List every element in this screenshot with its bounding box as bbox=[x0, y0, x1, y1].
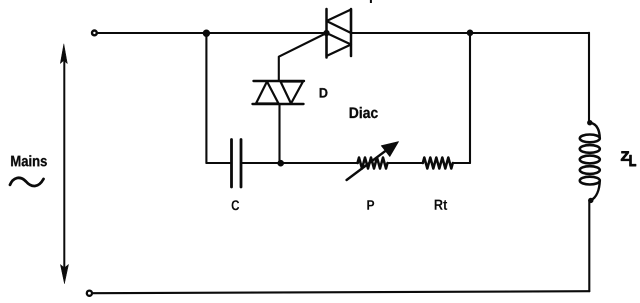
triac U1 right bar MT2 bbox=[350, 9, 353, 56]
diac left triangle (apex up) bbox=[256, 82, 279, 104]
mains arrow head up bbox=[60, 44, 67, 64]
potentiometer arrowhead bbox=[381, 142, 398, 157]
stray mark (cropped label) top bbox=[370, 0, 372, 3]
node coil top bbox=[587, 120, 592, 125]
wire diac bottom lead to J2 bbox=[278, 105, 280, 164]
wire bottom rail bbox=[93, 291, 590, 293]
diac right triangle (apex down) bbox=[281, 82, 304, 104]
triac lower triangle bbox=[327, 33, 352, 56]
mains double arrow shaft bbox=[63, 58, 65, 269]
potentiometer arrow shaft bbox=[347, 148, 390, 181]
wire branch vertical down from J1 bbox=[205, 33, 207, 163]
wire triac MT2 to top-right corner bbox=[351, 32, 589, 34]
node junction J3 (top right) bbox=[467, 30, 473, 36]
label C bbox=[232, 200, 240, 210]
wire top-left to triac MT1 bbox=[98, 32, 327, 34]
wire top-right corner down to load bbox=[588, 33, 590, 123]
AC sine symbol bbox=[10, 178, 44, 186]
wire capacitor to node J2 bbox=[243, 162, 281, 164]
label Diac bbox=[350, 107, 378, 118]
label ZL bbox=[621, 152, 636, 167]
node coil bottom bbox=[588, 198, 593, 203]
node triac gate junction bbox=[324, 30, 330, 36]
triac U1 left bar MT1 bbox=[325, 9, 328, 58]
mains arrow head down bbox=[60, 265, 68, 284]
inductor top connector curve bbox=[590, 123, 600, 139]
label Mains bbox=[11, 155, 47, 166]
wire triac gate to diac bbox=[279, 33, 327, 81]
node junction J2 (diac/capacitor) bbox=[278, 160, 284, 166]
wire P to Rt bbox=[388, 162, 423, 164]
diac D bottom bar bbox=[253, 103, 304, 105]
potentiometer P zigzag bbox=[358, 158, 388, 169]
wire Rt to right riser corner bbox=[453, 162, 470, 164]
terminal top-left bbox=[92, 31, 97, 36]
label Rt bbox=[435, 200, 448, 210]
wire to capacitor left plate bbox=[206, 162, 230, 164]
capacitor C plates bbox=[232, 140, 242, 188]
diac D top bar bbox=[254, 80, 305, 82]
wire J2 to potentiometer bbox=[281, 162, 358, 164]
inductor ZL coil loops bbox=[580, 135, 600, 185]
terminal bottom-left bbox=[87, 291, 92, 296]
wire load bottom down to bottom rail bbox=[588, 201, 590, 292]
triac upper triangle bbox=[327, 10, 352, 34]
label P bbox=[367, 200, 374, 209]
node junction J1 (top branch) bbox=[203, 30, 210, 37]
label D bbox=[320, 88, 328, 97]
inductor bottom connector curve bbox=[591, 181, 600, 201]
resistor Rt zigzag bbox=[423, 158, 453, 169]
wire right riser up to top wire bbox=[469, 33, 471, 163]
